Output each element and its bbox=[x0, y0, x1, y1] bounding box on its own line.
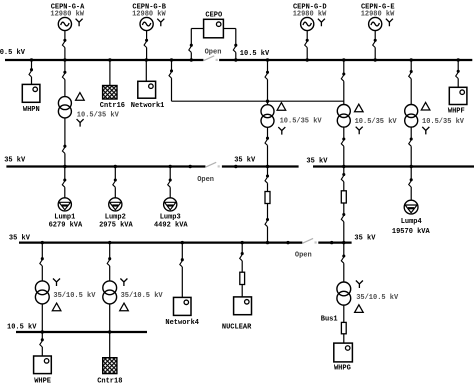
junction dots on 35 kV middle bus bbox=[234, 165, 269, 168]
wye winding symbol T7 bbox=[356, 280, 363, 288]
svg-text:Open: Open bbox=[295, 251, 312, 259]
network equivalent Network1 bbox=[138, 81, 156, 98]
transformer T4 10.5/35 kV (two-winding) bbox=[405, 105, 418, 128]
svg-text:Lump4: Lump4 bbox=[401, 218, 422, 226]
value label 10.5/35 kV (T3) bbox=[355, 118, 398, 126]
label NUCLEAR bbox=[222, 324, 252, 332]
bus 35 kV left section (node Bus-35kV-A) bbox=[6, 165, 205, 167]
transformer T2 10.5/35 kV (two-winding) bbox=[261, 105, 274, 128]
transformer T6 35/10.5 kV (two-winding) bbox=[103, 281, 117, 304]
junction dots on 35 kV left bus bbox=[63, 165, 192, 168]
svg-text:35/10.5 kV: 35/10.5 kV bbox=[53, 292, 96, 300]
label 35 kV (lower bus) bbox=[9, 234, 31, 242]
lumped load Lump4 19570 kVA bbox=[404, 200, 418, 214]
svg-text:10.5/35 kV: 10.5/35 kV bbox=[422, 118, 465, 126]
cable feeder 35kV right bus to lower stub with switches and fuse F2 bbox=[341, 167, 345, 191]
bus 10.5 kV right section (node Bus-10.5kV-B) bbox=[219, 59, 472, 61]
utility WHPE feeder wire with switch from bottom bus bbox=[40, 332, 44, 356]
transformer T6 feeder from lower 35 kV bus bbox=[107, 243, 111, 281]
fuse F3 (NUCLEAR feeder) bbox=[240, 272, 245, 284]
svg-text:Cntr16: Cntr16 bbox=[100, 102, 125, 110]
wire T1 to 35 kV bus with switch bbox=[62, 118, 66, 167]
junction of tie wire with T2 column bbox=[266, 100, 269, 103]
feeder wire with switch to Lump1 bbox=[62, 167, 66, 198]
svg-text:35/10.5 kV: 35/10.5 kV bbox=[121, 292, 164, 300]
tie wire from 10.5 kV bus down-right to T3 column bbox=[169, 60, 344, 101]
generator CEPN-G-E 12980 kW bbox=[369, 17, 393, 60]
transformer T4 feeder from 10.5 kV bus bbox=[409, 60, 413, 105]
svg-text:10.5/35 kV: 10.5/35 kV bbox=[77, 111, 120, 119]
label Cntr18 bbox=[97, 377, 122, 384]
value label 12980 kW (CEPN-G-B) bbox=[132, 11, 166, 19]
svg-text:Network1: Network1 bbox=[131, 102, 165, 110]
wire bottom bus to Cntr18 bbox=[109, 332, 111, 358]
label Lump2 bbox=[105, 213, 126, 221]
wire T5 to bottom 10.5 kV bus bbox=[41, 304, 43, 332]
svg-text:12980 kW: 12980 kW bbox=[132, 11, 166, 19]
bus 10.5 kV left section (node Bus-10.5kV-A) bbox=[5, 59, 203, 61]
transformer T5 feeder from lower 35 kV bus bbox=[40, 243, 44, 281]
wire fuse F1 to lower 35 kV bus with switch bbox=[265, 204, 269, 243]
delta winding symbol T2 bbox=[277, 103, 286, 111]
svg-text:35 kV: 35 kV bbox=[234, 157, 256, 165]
transformer T2 feeder from 10.5 kV bus bbox=[265, 60, 269, 105]
delta winding symbol T1 bbox=[76, 93, 85, 101]
label Lump3 bbox=[160, 213, 181, 221]
label Open (10.5 kV bus tie) bbox=[205, 49, 222, 57]
value label 35/10.5 kV (T6) bbox=[121, 292, 164, 300]
utility WHPG bbox=[334, 343, 353, 362]
bus 35 kV lower-right stub (node Bus-35kV-E) bbox=[318, 242, 351, 244]
label CEPO bbox=[205, 11, 222, 19]
svg-text:10.5 kV: 10.5 kV bbox=[0, 49, 26, 57]
wire T3 to 35 kV right bus with switch bbox=[341, 127, 345, 166]
label 10.5 kV (right bus) bbox=[240, 50, 270, 58]
utility WHPN bbox=[22, 84, 40, 102]
transformer T3 feeder from 10.5 kV bus bbox=[341, 60, 345, 105]
value label 6279 kVA (Lump1) bbox=[49, 222, 83, 230]
label CEPN-G-B bbox=[132, 4, 166, 12]
label WHPN bbox=[23, 106, 40, 114]
wye winding symbol T4 bbox=[422, 127, 429, 135]
wire T6 to bottom 10.5 kV bus bbox=[109, 304, 111, 332]
svg-text:35 kV: 35 kV bbox=[354, 235, 376, 243]
label WHPG bbox=[334, 365, 351, 373]
utility WHPE bbox=[34, 356, 52, 374]
transformer T1 10.5/35 kV feeder from top bus bbox=[62, 60, 66, 97]
feeder wire with switch to Lump3 bbox=[168, 167, 172, 198]
network equivalent Network4 bbox=[174, 297, 192, 315]
delta winding symbol T6 bbox=[120, 303, 129, 311]
svg-text:10.5 kV: 10.5 kV bbox=[240, 50, 270, 58]
value label 10.5/35 kV (T4) bbox=[422, 118, 465, 126]
fuse F1 bbox=[265, 192, 270, 204]
fuse F4 (WHPG feeder) bbox=[341, 322, 346, 333]
svg-text:WHPF: WHPF bbox=[448, 107, 465, 115]
utility WHPN feeder wire and switch bbox=[29, 60, 33, 84]
value label 12980 kW (CEPN-G-D) bbox=[293, 11, 327, 19]
tie network CEPO bbox=[204, 19, 224, 38]
svg-text:6279 kVA: 6279 kVA bbox=[49, 222, 83, 230]
wye winding symbol T1 bbox=[77, 119, 84, 127]
wye winding symbol T3 bbox=[356, 127, 363, 135]
transformer T7 35/10.5 kV (two-winding) bbox=[337, 282, 351, 305]
junction dots on 10.5 kV left bus bbox=[30, 58, 193, 61]
transformer T3 10.5/35 kV (two-winding) bbox=[337, 105, 350, 128]
generator CEPN-G-A 12980 kW bbox=[58, 17, 82, 60]
delta winding symbol T5 bbox=[52, 303, 61, 311]
utility WHPF bbox=[449, 87, 467, 104]
svg-text:CEPO: CEPO bbox=[205, 11, 222, 19]
value label 12980 kW (CEPN-G-E) bbox=[361, 11, 395, 19]
cable feeder 35kV middle bus to lower bus with switches and fuse F1 bbox=[265, 167, 269, 192]
svg-text:Lump1: Lump1 bbox=[54, 213, 75, 221]
bus 35 kV lower section (node Bus-35kV-D) bbox=[19, 242, 302, 244]
label Bus1 (node) bbox=[321, 315, 338, 323]
utility WHPF feeder wire and switch bbox=[456, 60, 460, 87]
svg-text:WHPE: WHPE bbox=[34, 377, 51, 384]
label CEPN-G-E bbox=[361, 4, 395, 12]
svg-text:35 kV: 35 kV bbox=[4, 156, 26, 164]
svg-text:12980 kW: 12980 kW bbox=[293, 11, 327, 19]
label WHPF bbox=[448, 107, 465, 115]
lumped load Lump1 6279 kVA bbox=[58, 198, 71, 211]
svg-text:10.5/35 kV: 10.5/35 kV bbox=[355, 118, 398, 126]
open tie switch on lower 35 kV bus bbox=[303, 238, 317, 243]
value label 12980 kW (CEPN-G-A) bbox=[50, 11, 84, 19]
label 35 kV (lower-right stub) bbox=[354, 235, 376, 243]
svg-text:NUCLEAR: NUCLEAR bbox=[222, 324, 252, 332]
label 10.5 kV (left bus) bbox=[0, 49, 26, 57]
wire fuse F4 to WHPG bbox=[343, 334, 345, 343]
node Bus1 wire below T7 bbox=[343, 305, 345, 322]
svg-text:Open: Open bbox=[205, 49, 222, 57]
lumped load Lump3 4492 kVA bbox=[164, 198, 177, 211]
delta winding symbol T3 bbox=[355, 104, 364, 112]
wire T2 to 35 kV middle bus with switch bbox=[265, 127, 269, 166]
label 35 kV (middle bus) bbox=[234, 157, 256, 165]
label Lump1 bbox=[54, 213, 75, 221]
feeder wire with switch to Lump4 bbox=[409, 167, 413, 201]
value label 4492 kVA (Lump3) bbox=[154, 222, 188, 230]
delta winding symbol T7 bbox=[355, 305, 364, 313]
svg-text:10.5 kV: 10.5 kV bbox=[7, 324, 37, 332]
wye winding symbol T5 bbox=[53, 278, 60, 286]
svg-text:Open: Open bbox=[197, 176, 214, 184]
label Network4 bbox=[165, 319, 199, 327]
label CEPN-G-A bbox=[51, 4, 85, 12]
svg-text:WHPG: WHPG bbox=[334, 365, 351, 373]
value label 10.5/35 kV (T2) bbox=[280, 117, 323, 125]
transformer T7 feeder from lower 35 kV stub with switch bbox=[341, 243, 345, 282]
wire fuse F2 to lower 35 kV stub with switch bbox=[341, 203, 345, 243]
transformer T1 10.5/35 kV (two-winding) bbox=[58, 97, 71, 118]
junction dots on 35 kV right bus bbox=[342, 165, 413, 168]
junction dots on 10.5 kV right bus bbox=[234, 58, 460, 61]
svg-text:12980 kW: 12980 kW bbox=[361, 11, 395, 19]
value label 35/10.5 kV (T5) bbox=[53, 292, 96, 300]
wire bus to Cntr16 bbox=[109, 60, 111, 86]
label WHPE bbox=[34, 377, 51, 384]
open tie switch on 35 kV bus A-B bbox=[206, 162, 220, 167]
svg-text:Cntr18: Cntr18 bbox=[97, 377, 122, 384]
wye winding symbol T6 bbox=[120, 278, 127, 286]
wire fuse F3 to NUCLEAR bbox=[241, 285, 243, 297]
label Lump4 bbox=[401, 218, 422, 226]
feeder wire with switch to NUCLEAR bbox=[240, 243, 244, 273]
lumped load Lump2 2975 kVA bbox=[109, 198, 122, 211]
svg-text:Bus1: Bus1 bbox=[321, 315, 338, 323]
label 35 kV (left bus) bbox=[4, 156, 26, 164]
network equivalent NUCLEAR bbox=[234, 297, 252, 315]
label Open (35 kV bus tie) bbox=[197, 176, 214, 184]
label Network1 bbox=[131, 102, 165, 110]
bus 35 kV middle section (node Bus-35kV-B) bbox=[222, 165, 299, 167]
transformer T5 35/10.5 kV (two-winding) bbox=[35, 281, 49, 304]
load Cntr16 (crosshatched box) bbox=[103, 86, 117, 100]
generator CEPN-G-B 12980 kW bbox=[140, 17, 164, 60]
delta winding symbol T4 bbox=[421, 102, 430, 110]
svg-text:35 kV: 35 kV bbox=[306, 158, 328, 166]
wye winding symbol T2 bbox=[278, 127, 285, 135]
svg-text:Network4: Network4 bbox=[165, 319, 199, 327]
value label 35/10.5 kV (T7) bbox=[356, 294, 399, 302]
fuse F2 bbox=[341, 191, 346, 203]
svg-text:35/10.5 kV: 35/10.5 kV bbox=[356, 294, 399, 302]
svg-text:19570 kVA: 19570 kVA bbox=[392, 228, 431, 236]
svg-text:10.5/35 kV: 10.5/35 kV bbox=[280, 117, 323, 125]
svg-text:35 kV: 35 kV bbox=[9, 234, 31, 242]
label Open (lower 35 kV tie) bbox=[295, 251, 312, 259]
label CEPN-G-D bbox=[293, 4, 327, 12]
load Cntr18 (crosshatched box) bbox=[103, 358, 117, 374]
junction dots on lower 35 kV stub bbox=[330, 241, 345, 244]
svg-text:Lump2: Lump2 bbox=[105, 213, 126, 221]
feeder wire with switch to Network4 bbox=[180, 243, 184, 298]
value label 10.5/35 kV (T1) bbox=[77, 111, 120, 119]
wire bus to Network1 bbox=[145, 60, 147, 81]
wire T4 to 35 kV right bus with switch bbox=[409, 127, 413, 166]
svg-text:WHPN: WHPN bbox=[23, 106, 40, 114]
CEPO right leg wire with switch bbox=[223, 29, 237, 61]
bus 10.5 kV bottom section (node Bus-10.5kV-C) bbox=[16, 331, 147, 333]
junction dots on bottom 10.5 kV bus bbox=[41, 330, 112, 333]
junction dots on lower 35 kV bus bbox=[41, 241, 290, 244]
label 10.5 kV (bottom bus) bbox=[7, 324, 37, 332]
value label 2975 kVA (Lump2) bbox=[99, 222, 133, 230]
bus 35 kV right section (node Bus-35kV-C) bbox=[313, 165, 474, 167]
svg-text:4492 kVA: 4492 kVA bbox=[154, 222, 188, 230]
open tie switch on 10.5 kV bus bbox=[204, 56, 218, 61]
label Cntr16 bbox=[100, 102, 125, 110]
label 35 kV (right bus) bbox=[306, 158, 328, 166]
feeder wire with switch to Lump2 bbox=[113, 167, 117, 198]
generator CEPN-G-D 12980 kW bbox=[301, 17, 325, 60]
value label 19570 kVA (Lump4) bbox=[392, 228, 431, 236]
svg-text:Lump3: Lump3 bbox=[160, 213, 181, 221]
CEPO left leg wire with switch bbox=[189, 29, 204, 61]
svg-text:12980 kW: 12980 kW bbox=[50, 11, 84, 19]
svg-text:2975 kVA: 2975 kVA bbox=[99, 222, 133, 230]
